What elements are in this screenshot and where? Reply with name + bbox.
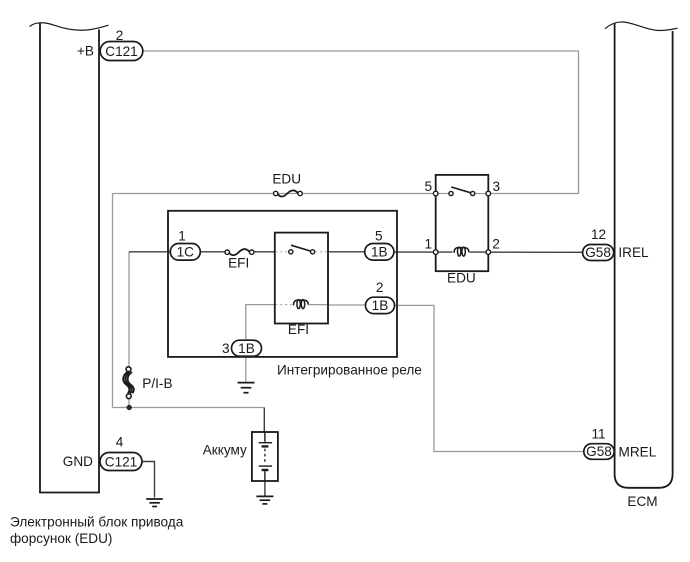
ECM torn top edge [605,22,678,31]
ground below 1B pin3 [238,383,255,393]
EDU relay pin circles [433,191,490,254]
svg-text:11: 11 [591,426,605,441]
wire EDU relay pin2 to IREL [488,251,582,253]
svg-text:+B: +B [77,43,94,58]
wire EFI fuse to relay box [254,251,275,253]
wire GND to ground [142,462,155,498]
connector G58 IREL [583,245,614,261]
splice P/I-B [123,367,134,399]
battery box [252,432,278,481]
fuse EFI [225,249,254,255]
connector C121 +B [100,42,143,61]
wire 1C to splice [129,251,170,253]
integrated relay inner box [275,233,328,324]
svg-text:Аккуму: Аккуму [203,443,247,458]
svg-text:2: 2 [492,236,500,251]
svg-text:12: 12 [591,227,606,242]
battery internals [259,432,272,481]
ECM block right bar [615,24,673,488]
EDU relay switch contacts [449,187,475,196]
ground below battery [256,496,273,504]
wire 1B pin5 to EDU relay pin1 [394,251,436,253]
svg-text:3: 3 [493,179,501,194]
EDU block left bar [39,23,100,493]
connector 1B pin2 [366,297,395,313]
svg-text:G58: G58 [585,245,611,260]
svg-text:ECM: ECM [627,494,657,509]
svg-text:2: 2 [376,280,384,295]
svg-text:EDU: EDU [447,271,476,286]
dashed internal coil row inner relay [275,304,293,306]
wire relay box to 1B pin2 [328,304,366,306]
svg-text:1C: 1C [177,245,195,260]
connector 1B pin5 [365,244,394,261]
svg-text:1: 1 [424,236,432,251]
svg-text:EFI: EFI [288,322,309,337]
svg-text:1B: 1B [372,298,389,313]
inner relay switch contacts [289,245,315,254]
svg-text:4: 4 [116,434,124,449]
svg-text:форсунок (EDU): форсунок (EDU) [10,531,112,546]
dashed internal switch row EDU relay [436,193,449,195]
dashed internal switch row inner relay [275,251,289,253]
wire P/I-B lower [128,399,130,408]
junction dot [127,405,132,410]
svg-text:1B: 1B [238,341,255,356]
wire coil to 1B pin3 [246,305,275,341]
svg-text:2: 2 [116,28,124,43]
svg-text:Электронный блок привода: Электронный блок привода [10,514,184,529]
svg-text:C121: C121 [105,44,138,59]
wire battery to ground [264,481,266,496]
wire relay box to 1B pin5 [328,251,365,253]
svg-text:1B: 1B [371,245,388,260]
svg-text:C121: C121 [105,454,138,469]
svg-text:Интегрированное реле: Интегрированное реле [277,363,422,378]
wire MREL [395,305,584,451]
svg-text:EFI: EFI [228,256,249,271]
wire +B to EDU relay pin 3 [143,51,579,194]
ground below GND C121 [146,499,163,507]
svg-text:MREL: MREL [619,444,657,459]
connector G58 MREL [584,444,614,460]
svg-text:EDU: EDU [272,172,301,187]
EDU block torn top edge [30,23,109,30]
svg-text:5: 5 [424,179,432,194]
EDU relay coil [454,247,469,256]
connector 1C [170,244,200,261]
svg-text:3: 3 [222,341,230,356]
svg-text:GND: GND [63,454,93,469]
wire junction row [113,407,265,409]
svg-text:P/I-B: P/I-B [142,376,172,391]
wire 1C to EFI fuse [200,251,225,253]
EDU relay box [436,175,489,271]
fuse EDU [274,190,303,196]
svg-text:G58: G58 [586,444,612,459]
EDU relay coil row internal wires [436,251,453,253]
integrated relay outer box [168,211,397,357]
wire EDU fuse row [113,193,436,195]
connector C121 GND [100,453,142,471]
wire P/I-B upper [128,252,130,367]
svg-text:5: 5 [375,228,383,243]
wire 1B pin3 to ground [245,356,247,381]
wire vertical battery feed [112,194,114,408]
inner relay coil EFI [293,300,308,309]
connector 1B pin3 [232,340,262,356]
wire battery positive drop [263,408,265,433]
svg-text:IREL: IREL [618,245,649,260]
svg-text:1: 1 [178,228,186,243]
